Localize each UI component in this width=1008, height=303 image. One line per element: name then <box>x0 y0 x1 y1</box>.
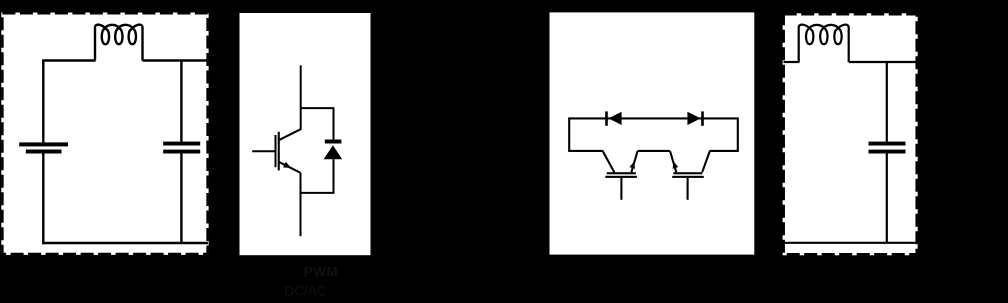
IGBT Q1 collector diagonal <box>280 129 301 140</box>
panel 4 dashed border <box>784 14 917 254</box>
IGBT Q2 body bar <box>607 172 636 174</box>
wire: capacitor branch top <box>886 62 888 142</box>
inductor L1 coil <box>95 25 143 61</box>
IGBT Q2 collector diagonal <box>603 151 615 172</box>
IGBT Q1 gate bar <box>275 135 277 167</box>
wire: right horizontal <box>710 150 739 152</box>
IGBT Q2 emitter diagonal <box>631 151 637 172</box>
wire: top right segment <box>849 61 917 63</box>
block 4: output LC filter (dashed box) <box>783 13 918 255</box>
diode D2 cathode bar <box>605 111 608 125</box>
panel 3 white box <box>550 12 755 254</box>
IGBT Q2 emitter arrow <box>630 161 636 169</box>
IGBT Q3 collector diagonal <box>702 151 710 172</box>
wire: Q2 gate lead <box>620 178 622 200</box>
wire: capacitor branch top <box>180 61 182 142</box>
capacitor C2 top plate <box>869 142 906 146</box>
diode D3 triangle (points right) <box>687 112 700 125</box>
diode D1 cathode bar <box>325 140 342 144</box>
panel 1 dashed border <box>2 13 207 254</box>
block 1: DC source with LC filter (dashed box) <box>1 13 208 255</box>
wire: diode branch bottom <box>301 159 334 193</box>
diode D1 triangle <box>324 145 343 159</box>
IGBT Q1 body bar <box>278 132 280 171</box>
capacitor C1 top plate <box>163 142 200 146</box>
diode D3 cathode bar <box>701 111 704 125</box>
wire: left vertical (battery branch bottom) <box>42 154 44 245</box>
wire: Q3 gate lead <box>687 178 689 200</box>
wire: capacitor branch bottom <box>886 153 888 243</box>
wire: gate lead <box>252 150 274 152</box>
svg-text:PWM: PWM <box>304 264 339 279</box>
wire: emitter lead <box>300 173 302 236</box>
wire: left horizontal <box>568 150 603 152</box>
wire: bottom rail <box>784 242 918 244</box>
battery B1 long plate <box>19 142 68 146</box>
IGBT Q3 emitter arrow <box>673 161 679 169</box>
wire: top right segment <box>143 59 209 61</box>
panel 1 white box <box>1 13 208 255</box>
panel 2 white box <box>240 13 371 255</box>
battery B1 short plate <box>26 150 62 154</box>
wire: middle horizontal <box>638 150 670 152</box>
panel 4 white box <box>783 13 918 255</box>
IGBT Q2 gate bar <box>605 176 637 178</box>
wire: bottom rail <box>42 242 208 244</box>
wire: top left stub <box>784 61 800 63</box>
IGBT Q1 emitter arrow <box>283 162 291 168</box>
diode D2 triangle (points left) <box>609 112 622 125</box>
IGBT Q3 body bar <box>673 172 702 174</box>
capacitor C2 bottom plate <box>869 150 906 154</box>
IGBT Q3 emitter diagonal <box>670 151 676 172</box>
inductor L2 coil <box>799 25 849 62</box>
wire: collector lead <box>300 65 302 130</box>
IGBT Q1 emitter diagonal <box>280 162 301 173</box>
capacitor C1 bottom plate <box>163 150 200 154</box>
IGBT Q3 gate bar <box>672 176 704 178</box>
wire: left vertical (battery branch top) <box>42 61 44 143</box>
block 3: bidirectional switch cell (solid box) <box>550 12 755 254</box>
svg-text:DC/AC: DC/AC <box>285 283 327 298</box>
wire: top loop <box>569 118 738 150</box>
block 2: single IGBT with antiparallel diode (solid box) <box>240 13 371 255</box>
wire: diode branch top <box>301 108 334 139</box>
wire: top left segment <box>42 59 95 61</box>
wire: capacitor branch bottom <box>180 153 182 243</box>
